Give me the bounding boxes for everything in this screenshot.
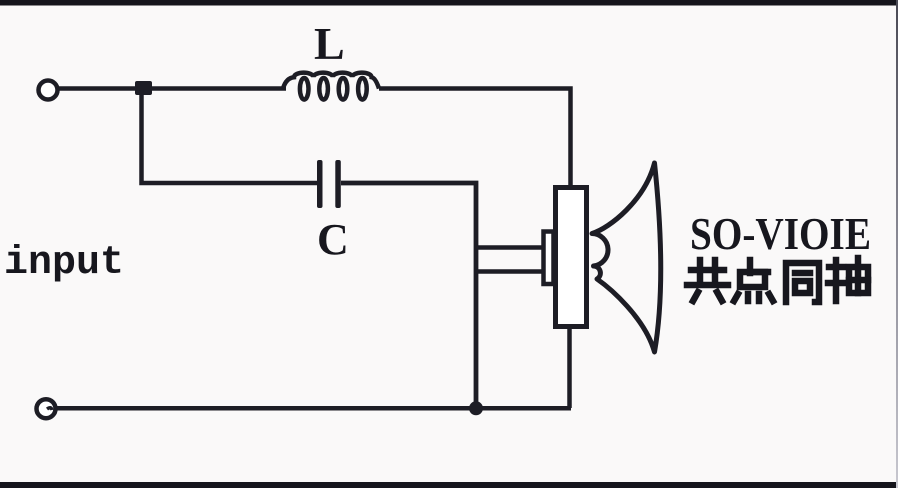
wire: speaker bottom to return (567, 324, 572, 408)
node A junction (135, 81, 152, 95)
wire: tweeter + lead (476, 245, 543, 250)
speaker horn cone (592, 163, 661, 352)
wire: bottom return (55, 406, 571, 411)
label 共点同轴 (687, 258, 868, 302)
wire: capacitor to tweeter branch vertical (341, 183, 476, 408)
svg-text:C: C (317, 215, 349, 264)
terminal: input - (lower) (37, 399, 56, 418)
speaker tweeter frame (544, 232, 554, 285)
speaker woofer frame (556, 188, 587, 327)
wire: node A to inductor (150, 86, 286, 91)
wire: inductor to speaker top corner (379, 89, 571, 191)
wire: tweeter - lead (476, 269, 543, 274)
wire: node A down to capacitor level (142, 90, 318, 183)
svg-text:L: L (314, 18, 345, 69)
svg-text:SO-VIOIE: SO-VIOIE (690, 208, 871, 259)
capacitor C (317, 160, 341, 208)
wire: upper terminal to node A (58, 86, 141, 91)
svg-text:input: input (4, 241, 124, 286)
node B junction on return (469, 401, 483, 415)
terminal: input + (upper) (39, 81, 58, 100)
inductor L (283, 73, 379, 100)
